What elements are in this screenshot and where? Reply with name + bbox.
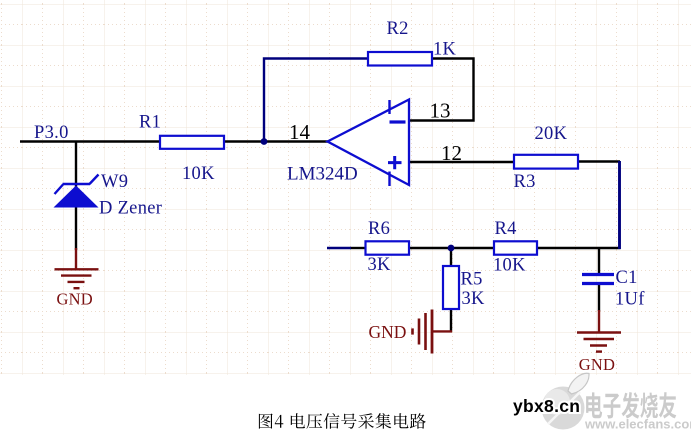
svg-text:14: 14 xyxy=(289,120,311,144)
svg-text:10K: 10K xyxy=(493,256,526,276)
svg-text:1K: 1K xyxy=(433,40,457,60)
svg-text:W9: W9 xyxy=(101,172,128,192)
svg-text:www.elecfans.com: www.elecfans.com xyxy=(584,417,691,432)
svg-text:13: 13 xyxy=(430,99,451,123)
svg-text:20K: 20K xyxy=(535,124,568,144)
svg-text:LM324D: LM324D xyxy=(287,164,358,185)
svg-text:GND: GND xyxy=(369,322,407,342)
svg-text:R4: R4 xyxy=(495,219,517,239)
svg-text:1Uf: 1Uf xyxy=(615,290,645,310)
svg-text:3K: 3K xyxy=(368,255,392,275)
svg-text:ybx8.cn: ybx8.cn xyxy=(513,396,580,416)
svg-text:R1: R1 xyxy=(139,113,161,133)
svg-text:C1: C1 xyxy=(616,268,638,288)
svg-text:D Zener: D Zener xyxy=(99,199,162,219)
svg-text:12: 12 xyxy=(441,141,462,165)
svg-text:GND: GND xyxy=(57,289,93,308)
svg-text:GND: GND xyxy=(579,355,615,374)
svg-text:R6: R6 xyxy=(368,219,390,239)
svg-text:10K: 10K xyxy=(182,164,215,184)
svg-text:R3: R3 xyxy=(514,172,536,192)
svg-text:R5: R5 xyxy=(461,270,483,290)
svg-text:P3.0: P3.0 xyxy=(34,123,69,143)
svg-text:3K: 3K xyxy=(462,289,486,309)
svg-text:R2: R2 xyxy=(387,19,409,39)
